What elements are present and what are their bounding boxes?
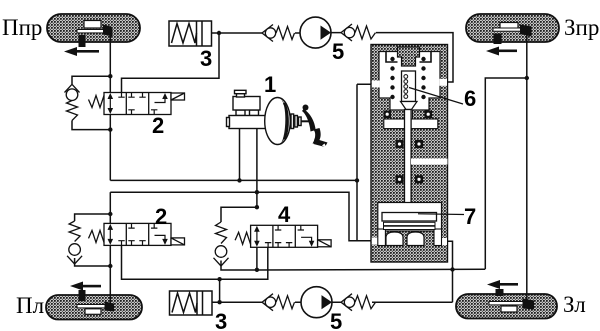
wire: valve 2b through-line to front-left wheel [109,245,111,303]
wire: valve 2a bypass branch bottom [72,121,110,130]
wire: valve 2a upper port to accumulator junction [122,33,220,93]
upper cross chamber [384,119,438,129]
pressure regulator body (6/7) [371,45,448,263]
ABS valve 4 (mirrored copy) [235,225,331,247]
mid seals row 1 [396,140,404,148]
lower cavity [378,203,442,232]
mid seals row 2 [396,175,404,183]
chamber step lines [386,52,431,62]
svg-text:3: 3 [200,46,212,71]
junction: valve 2a bypass upper tap [108,74,112,78]
wire: accumulator 3a output to pump 5a [211,32,262,34]
mid channel right [411,159,448,165]
junction: accumulator 3b output tap [217,300,221,304]
wire: pump 5b line to junction [295,301,453,303]
bypass check valve at valve 4 [214,222,229,266]
wheel rear-left (Зл) [456,280,557,319]
wire: accumulator 3b output to pump 5b [212,301,262,303]
wheel front-right (Ппр) [47,14,140,56]
regulator top plug [398,47,420,66]
junction: accumulator 3a output tap [217,31,221,35]
wire: valve 4 bypass branch top [221,207,257,222]
wire: regulator left riser [357,84,371,241]
spring dots right column [421,57,425,99]
junction: regulator output on rear bus [450,267,454,271]
check valve at pump 5b inlet [262,294,295,311]
piston 7 plates [382,213,437,222]
regulator port channels [372,81,380,88]
svg-text:Зпр: Зпр [564,15,599,40]
junction: valve 2b bypass upper tap [108,212,112,216]
check valve at pump 5a outlet [341,24,376,41]
wire: master cylinder port A down [239,129,241,181]
junction: master port B on circuit-B bus [255,190,259,194]
pump 5a [300,17,331,48]
wire: check valve 5a gaps [295,32,341,34]
junction: circuit-A bus to regulator riser [355,178,359,182]
wire: valve 2b bypass branch top [75,214,111,221]
svg-text:5: 5 [330,309,342,331]
svg-text:4: 4 [278,202,291,227]
wire: circuit-B bus [110,192,371,241]
junction: master port A on circuit-A bus [237,178,241,182]
check valve at pump 5a inlet [262,25,295,42]
junction: pilot bus to accumulator 3b drop [217,277,221,281]
ABS valve unit template [89,93,185,115]
wire: pump 5a to regulator right port [376,33,453,82]
wire: rear wheels vertical trunk [526,30,528,303]
svg-text:7: 7 [464,204,476,229]
master cylinder 1 with booster and pedal [227,90,310,144]
bypass check valve at valve 2a [65,84,80,120]
wire: valve 2b bypass branch bottom [75,258,111,266]
valve seat funnel [401,102,418,110]
svg-text:2: 2 [152,113,164,138]
bottom arches [386,232,403,246]
check valve at pump 5b outlet [341,294,376,311]
accumulator 3b [170,291,213,315]
wire: circuit-A bus (master cylinder to manifold riser) [110,179,357,181]
label pointer 7 [418,213,464,216]
wheel front-left (Пл) [46,282,142,320]
wire: pilot bus drop to accumulator 3b [219,279,221,302]
svg-text:6: 6 [464,86,476,111]
accumulator 3a [169,21,212,46]
junction: valve 2b bypass lower tap [108,264,112,268]
brake pedal [302,105,328,149]
svg-text:1: 1 [264,72,276,97]
wheel rear-right (Зпр) [466,14,559,56]
junction: rear wheels trunk tap [525,76,529,80]
wire: valve 4 through-line down [256,245,258,270]
spring dots left column [390,57,394,99]
regulator stem [405,110,412,209]
svg-text:Ппр: Ппр [2,15,42,40]
junction: valve 4 outlet on rear bus [255,268,259,272]
upper seals [384,111,392,119]
junction: valve 4 bypass upper tap [255,205,259,209]
wire: valve 2b feed down from circuit-B [109,192,111,223]
wire: valve 2a bypass branch top [72,76,110,84]
bypass check valve at valve 2b [67,221,82,264]
junction: valve 2a bypass lower tap [108,127,112,131]
wire: front-right wheel down to ABS valve 2a [109,30,111,93]
wire: valve 2b lower port to bottom pilot bus [122,245,268,279]
wire: regulator output down to rear pump line [441,241,453,302]
regulator control piston [402,71,416,102]
pump 5b [301,287,332,318]
wire: rear delivery bus valve 4 to riser [257,268,485,271]
wire: valve 4 bypass branch bottom [221,261,257,271]
svg-text:2: 2 [155,204,167,229]
wire: master cylinder port B down to valve 4 [256,129,258,208]
svg-text:5: 5 [332,39,344,64]
svg-text:3: 3 [215,309,227,331]
ABS valve 2b (mirrored copy) [89,223,185,245]
svg-text:Пл: Пл [16,293,44,318]
wire: valve 2a through-line down to circuit-A bus [109,115,111,181]
svg-text:Зл: Зл [563,292,586,317]
label pointer 6 [409,88,463,105]
wire: rear wheels riser [485,78,527,269]
regulator top chamber cavity [379,52,440,123]
